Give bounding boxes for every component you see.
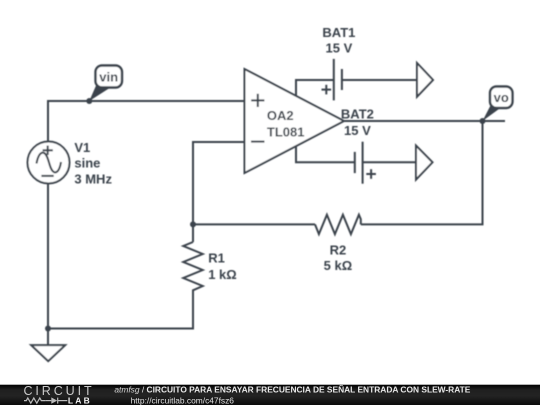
svg-text:vo: vo [494,90,509,105]
ground [31,345,65,361]
footer bar [0,385,540,405]
wire inverting input to feedback node [193,142,245,242]
V1 plus sign [43,146,53,155]
V1 minus sign [41,175,53,177]
svg-text:atmfsg / CIRCUITO PARA ENSAYAR: atmfsg / CIRCUITO PARA ENSAYAR FRECUENCI… [114,384,470,394]
op-amp plus input sign [251,94,264,107]
battery BAT2 plates [355,142,363,184]
svg-text:R1: R1 [208,251,225,266]
svg-text:5 kΩ: 5 kΩ [324,258,353,273]
label V1 [74,140,112,186]
battery BAT1 plus sign [322,85,332,95]
resistor R1 [183,242,202,292]
svg-text:TL081: TL081 [267,125,305,140]
op-amp minus input sign [251,141,265,143]
wire op-amp output [344,120,505,122]
svg-text:15 V: 15 V [344,123,371,138]
wire BAT1 to top power arrow [342,79,417,81]
label BAT1 [322,25,355,56]
wire R2 right to output node [361,121,483,224]
V1 sine wave [37,153,62,173]
svg-text:R2: R2 [330,243,347,258]
junction dot feedback node [190,221,196,227]
svg-text:3 MHz: 3 MHz [74,171,112,186]
svg-text:sine: sine [74,156,100,171]
svg-text:vin: vin [99,70,118,85]
resistor R2 [315,215,361,234]
svg-text:OA2: OA2 [267,108,294,123]
wire op-amp V+ pin to BAT1 [296,80,334,97]
label BAT2 [341,107,374,139]
node vo callout [483,87,513,122]
power arrow top [417,63,433,97]
label R2 [324,243,353,274]
op-amp OA2 body [245,69,345,173]
svg-text:1 kΩ: 1 kΩ [208,267,237,282]
svg-text:BAT1: BAT1 [322,25,355,40]
label R1 [208,251,237,283]
svg-text:BAT2: BAT2 [341,107,374,122]
svg-text:15 V: 15 V [326,41,353,56]
wire V1 bottom lead to ground [47,184,49,345]
junction dot ground node [45,326,51,332]
battery BAT1 plates [334,59,342,101]
power arrow bottom [416,146,433,180]
junction dot vo node [480,118,486,124]
svg-text:http://circuitlab.com/c47fsz6: http://circuitlab.com/c47fsz6 [131,395,235,405]
voltage source V1 circle [28,142,70,184]
svg-text:LAB: LAB [68,395,92,405]
wire vin node to op-amp non-inverting input [48,101,245,142]
CircuitLab logo zigzag and diode [24,398,67,404]
junction dot vin node [86,98,92,104]
wire bottom return to R1 [48,292,193,329]
wire feedback node to R2 [193,223,315,225]
battery BAT2 plus sign [366,169,376,179]
svg-text:V1: V1 [74,140,90,155]
wire op-amp V- pin to BAT2 [296,146,355,163]
wire BAT2 to bottom power arrow [363,161,416,163]
label OA2 [267,108,305,140]
node vin callout [89,66,122,102]
